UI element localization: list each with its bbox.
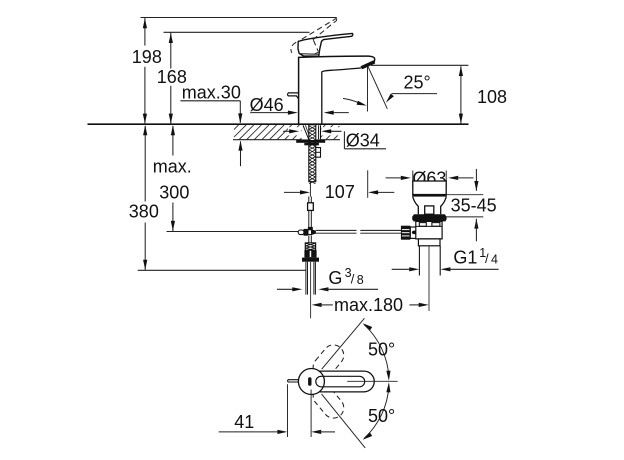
hose connector [304, 250, 316, 257]
dimension 35-45 [447, 169, 497, 241]
label G1 1/4 [392, 246, 499, 272]
dimension 168 [157, 32, 187, 124]
svg-text:max.: max. [153, 157, 192, 177]
datum line max300 bottom [167, 231, 299, 233]
hose braided section [305, 243, 315, 251]
svg-text:25°: 25° [404, 72, 431, 92]
dimension 107 [284, 170, 394, 202]
waste lift knob [425, 206, 434, 214]
waste rod connector [410, 227, 418, 238]
waste seal stack [412, 214, 446, 221]
svg-text:35-45: 35-45 [451, 196, 497, 216]
dimension dia34 arrows [283, 127, 346, 135]
svg-text:380: 380 [129, 201, 159, 221]
25 deg vertical reference [367, 65, 369, 111]
lower 50deg arc [363, 382, 391, 439]
dimension 108 [459, 66, 507, 124]
shank side clip [316, 148, 321, 158]
waste plug cylinder [412, 181, 446, 197]
dashed handle swung down [309, 381, 348, 422]
lever front nose [288, 93, 299, 99]
dimension max. 300 [153, 125, 192, 231]
25 deg stream line [368, 65, 388, 108]
dia34 label box [342, 129, 389, 152]
hose nut [302, 258, 319, 262]
svg-text:41: 41 [234, 412, 254, 432]
shank flange [296, 140, 325, 145]
rod below cross [309, 236, 312, 243]
svg-text:G: G [328, 268, 342, 288]
aerator [361, 60, 376, 69]
faucet body outline [299, 56, 375, 124]
waste step [418, 239, 440, 246]
pop-up rod segment [309, 197, 312, 204]
lever handle [298, 33, 353, 56]
dimension dia63 [386, 168, 474, 188]
svg-text:G1: G1 [453, 248, 477, 268]
dashed handle swung up [309, 341, 348, 382]
dimension dia46 [250, 95, 349, 115]
svg-text:8: 8 [357, 273, 364, 287]
svg-text:Ø34: Ø34 [346, 131, 380, 151]
dimension 380 [129, 125, 159, 270]
horizontal pop-up rod [316, 230, 401, 233]
counter cross-section hatching [234, 125, 340, 140]
top view pivot circle [298, 369, 324, 395]
datum line counter top [88, 123, 469, 125]
cross fitting [304, 229, 316, 236]
waste tailpipe [419, 246, 440, 276]
lift rod upper [309, 182, 311, 197]
top view handle slot [316, 376, 365, 387]
svg-text:4: 4 [491, 253, 498, 267]
threaded shank [309, 125, 316, 184]
svg-text:max.180: max.180 [334, 295, 403, 315]
hose tails [306, 262, 316, 319]
waste body [416, 221, 442, 239]
datum line top of raised lever (198 ref) [141, 17, 337, 19]
top view centerline [347, 380, 397, 382]
svg-text:107: 107 [325, 182, 355, 202]
rod adjustment sleeve [308, 203, 314, 211]
top view pivot mark [308, 377, 311, 386]
hole cone lines [303, 125, 321, 139]
dimension max.180 [312, 295, 429, 315]
svg-text:50°: 50° [368, 339, 395, 359]
waste knurled knob [401, 226, 410, 240]
top view handle stadium [310, 371, 374, 392]
dimension 41 [219, 384, 335, 437]
datum line lever top (168 ref) [164, 31, 310, 33]
label 25 deg [386, 72, 437, 102]
svg-text:max.30: max.30 [182, 82, 241, 102]
upper 50deg line [322, 318, 365, 369]
lower 50deg line [322, 394, 366, 448]
counter bottom line [233, 139, 340, 141]
rod clevis loop [298, 230, 304, 235]
svg-text:198: 198 [132, 47, 162, 67]
waste cone [413, 197, 447, 215]
waste dia63 extension lines [413, 171, 446, 189]
datum line 380 bottom [138, 269, 306, 271]
dimension max.30 [180, 82, 242, 166]
upper 50deg arc [363, 323, 391, 380]
svg-text:50°: 50° [368, 406, 395, 426]
svg-text:300: 300 [159, 182, 189, 202]
top view nose [288, 380, 299, 382]
lever raised dashed outline [291, 18, 337, 54]
svg-text:108: 108 [477, 87, 507, 107]
dimension 198 [132, 18, 162, 125]
svg-text:/: / [485, 251, 489, 266]
datum line spout outlet (108 ref) [371, 64, 468, 66]
label G3/8 [277, 266, 378, 291]
counter hole [302, 125, 321, 139]
25 deg arc arrow [343, 98, 367, 105]
svg-text:/: / [351, 271, 355, 286]
rod collar [308, 227, 313, 230]
pop-up rod lower [309, 210, 312, 227]
waste centerline [428, 246, 430, 311]
